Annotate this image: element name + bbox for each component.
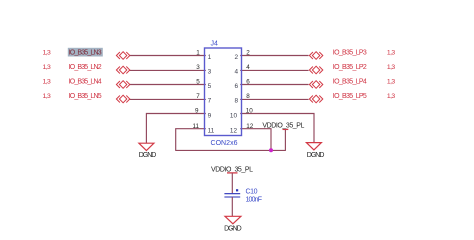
pin 4 inside	[234, 69, 238, 76]
svg-text:1: 1	[196, 50, 200, 57]
pin 9 inside	[208, 113, 212, 120]
svg-text:12: 12	[246, 123, 254, 130]
svg-text:5: 5	[196, 79, 200, 86]
pin 10 inside	[230, 113, 238, 120]
svg-text:1,3: 1,3	[387, 93, 396, 100]
pin number 5 outside	[196, 79, 200, 86]
pin number 10 outside	[246, 108, 254, 115]
svg-text:1,3: 1,3	[43, 79, 52, 86]
pin number 4 outside	[246, 64, 250, 71]
svg-text:2: 2	[246, 50, 250, 57]
svg-text:100nF: 100nF	[246, 197, 263, 204]
net label IO_B35_LN3 (selected)	[68, 48, 103, 57]
svg-text:10: 10	[230, 113, 238, 120]
pin 6 inside	[234, 83, 238, 90]
wire pin1 left	[130, 55, 206, 57]
svg-text:IO_B35_LP5: IO_B35_LP5	[333, 93, 367, 100]
svg-text:IO_B35_LN4: IO_B35_LN4	[69, 79, 102, 86]
page ref 1,3 LP3	[387, 50, 396, 57]
svg-text:IO_B35_LN3: IO_B35_LN3	[69, 50, 102, 57]
svg-text:VDDIO_35_PL: VDDIO_35_PL	[262, 123, 304, 130]
wire pin6 right	[240, 84, 308, 86]
svg-text:2: 2	[234, 54, 238, 61]
wire power to C10	[231, 173, 233, 193]
svg-text:CON2x6: CON2x6	[211, 140, 238, 147]
pin number 1 outside	[196, 50, 200, 57]
wire pin4 right	[240, 69, 308, 71]
ground DGND bottom	[224, 216, 242, 232]
net label IO_B35_LP3	[333, 50, 367, 57]
net label IO_B35_LP4	[333, 79, 367, 86]
svg-text:7: 7	[208, 98, 212, 105]
wire pin2 right	[240, 55, 308, 57]
svg-text:11: 11	[192, 123, 199, 130]
svg-text:J4: J4	[211, 40, 219, 47]
net label IO_B35_LN4	[69, 79, 102, 86]
power symbol VDDIO_35_PL at pin12	[262, 123, 304, 130]
svg-text:9: 9	[208, 113, 212, 120]
page ref 1,3 LP4	[387, 79, 396, 86]
wire power stub VDDIO_35_PL	[284, 130, 286, 151]
wire pin10 to right DGND	[240, 114, 314, 143]
svg-text:4: 4	[234, 69, 238, 76]
pin 5 inside	[208, 83, 212, 90]
svg-text:1,3: 1,3	[43, 93, 52, 100]
off-page connector IO_B35_LP2	[309, 66, 322, 74]
wire bottom rail	[176, 149, 286, 151]
pin number 3 outside	[196, 64, 200, 71]
pin number 12 outside	[246, 123, 254, 130]
svg-text:DGND: DGND	[224, 225, 242, 232]
svg-text:IO_B35_LP4: IO_B35_LP4	[333, 79, 367, 86]
net label IO_B35_LN5	[69, 93, 102, 100]
net label IO_B35_LP5	[333, 93, 367, 100]
node junction VDDIO_35_PL	[269, 148, 273, 152]
svg-text:IO_B35_LN5: IO_B35_LN5	[69, 93, 102, 100]
svg-text:5: 5	[208, 83, 212, 90]
svg-text:8: 8	[234, 98, 238, 105]
pin 2 inside	[234, 54, 238, 61]
wire pin5 left	[130, 84, 206, 86]
svg-text:3: 3	[208, 69, 212, 76]
svg-text:1,3: 1,3	[387, 64, 396, 71]
svg-text:IO_B35_LN2: IO_B35_LN2	[69, 64, 102, 71]
page ref 1,3 LP2	[387, 64, 396, 71]
svg-text:1,3: 1,3	[43, 64, 52, 71]
pin 12 inside	[230, 128, 238, 135]
svg-text:DGND: DGND	[307, 152, 325, 159]
page ref 1,3 LN2	[43, 64, 52, 71]
svg-text:6: 6	[246, 79, 250, 86]
page ref 1,3 LN5	[43, 93, 52, 100]
pin 7 inside	[208, 98, 212, 105]
svg-text:1: 1	[208, 54, 212, 61]
svg-text:1,3: 1,3	[387, 50, 396, 57]
wire pin9 to left DGND	[146, 114, 205, 144]
pin 1 inside	[208, 54, 212, 61]
pin 3 inside	[208, 69, 212, 76]
pin 11 inside	[208, 128, 215, 135]
svg-text:1,3: 1,3	[387, 79, 396, 86]
pin number 7 outside	[196, 93, 200, 100]
power symbol VDDIO_35_PL above C10	[211, 166, 253, 173]
svg-text:3: 3	[196, 64, 200, 71]
svg-text:9: 9	[195, 108, 199, 115]
pin number 6 outside	[246, 79, 250, 86]
svg-text:IO_B35_LP3: IO_B35_LP3	[333, 50, 367, 57]
svg-text:11: 11	[208, 128, 215, 135]
wire pin12 to rail	[240, 129, 271, 151]
pin number 2 outside	[246, 50, 250, 57]
svg-text:7: 7	[196, 93, 200, 100]
net label IO_B35_LN2	[69, 64, 102, 71]
svg-text:DGND: DGND	[139, 152, 157, 159]
svg-text:12: 12	[230, 128, 238, 135]
capacitor C10 100nF	[224, 189, 262, 204]
off-page connector IO_B35_LP3	[309, 52, 322, 60]
wire pin8 right	[240, 98, 308, 100]
off-page connector IO_B35_LN3	[116, 52, 129, 60]
off-page connector IO_B35_LP4	[309, 81, 322, 89]
ground DGND right	[306, 143, 324, 160]
wire pin7 left	[130, 98, 206, 100]
page ref 1,3 LP5	[387, 93, 396, 100]
page ref 1,3 LN3	[43, 50, 52, 57]
svg-text:6: 6	[234, 83, 238, 90]
svg-text:1,3: 1,3	[43, 50, 52, 57]
off-page connector IO_B35_LN4	[116, 81, 129, 89]
net label IO_B35_LP2	[333, 64, 367, 71]
svg-text:C10: C10	[246, 189, 258, 196]
connector J4 (CON2x6)	[205, 40, 242, 147]
svg-text:10: 10	[246, 108, 254, 115]
svg-text:4: 4	[246, 64, 250, 71]
off-page connector IO_B35_LN5	[116, 95, 129, 103]
ground DGND left	[139, 143, 157, 159]
pin number 9 outside	[195, 108, 199, 115]
page ref 1,3 LN4	[43, 79, 52, 86]
svg-text:8: 8	[246, 93, 250, 100]
pin number 11 outside	[192, 123, 199, 130]
wire pin11 to bottom rail	[176, 129, 206, 151]
wire pin3 left	[130, 69, 206, 71]
wire C10 to DGND	[231, 197, 233, 216]
off-page connector IO_B35_LN2	[116, 66, 129, 74]
pin 8 inside	[234, 98, 238, 105]
off-page connector IO_B35_LP5	[309, 95, 322, 103]
svg-text:IO_B35_LP2: IO_B35_LP2	[333, 64, 367, 71]
pin number 8 outside	[246, 93, 250, 100]
